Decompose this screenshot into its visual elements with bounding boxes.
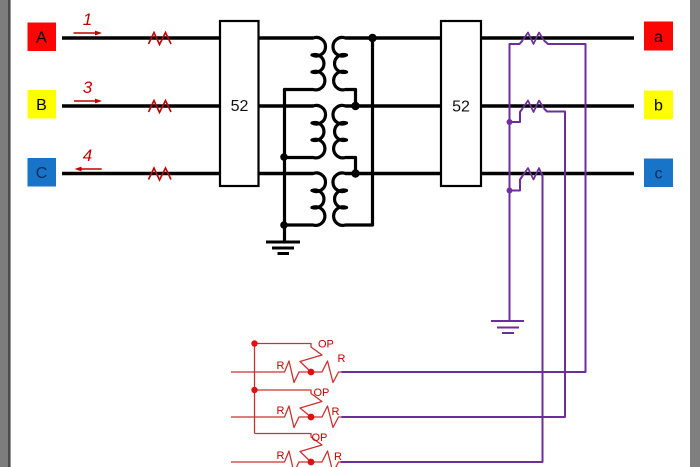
svg-text:b: b bbox=[654, 98, 663, 115]
svg-text:4: 4 bbox=[83, 146, 92, 165]
svg-text:R: R bbox=[277, 360, 285, 372]
svg-text:R: R bbox=[338, 353, 346, 365]
svg-text:OP: OP bbox=[314, 387, 330, 399]
svg-text:A: A bbox=[36, 30, 47, 47]
svg-text:R: R bbox=[277, 405, 285, 417]
svg-text:OP: OP bbox=[318, 339, 334, 351]
svg-text:C: C bbox=[36, 165, 48, 182]
svg-text:3: 3 bbox=[83, 78, 93, 97]
svg-text:B: B bbox=[36, 97, 47, 114]
svg-text:a: a bbox=[654, 29, 663, 46]
svg-text:c: c bbox=[655, 166, 663, 183]
svg-text:R: R bbox=[334, 451, 342, 463]
svg-text:R: R bbox=[332, 406, 340, 418]
svg-text:R: R bbox=[277, 450, 285, 462]
svg-text:1: 1 bbox=[83, 10, 92, 29]
svg-text:52: 52 bbox=[231, 98, 249, 115]
svg-text:52: 52 bbox=[452, 99, 470, 116]
svg-text:OP: OP bbox=[312, 432, 328, 444]
